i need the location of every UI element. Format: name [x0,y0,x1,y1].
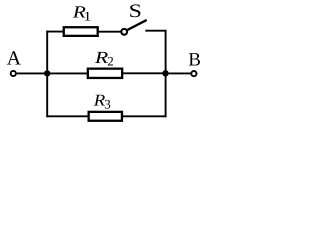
svg-text:3: 3 [104,96,111,111]
svg-text:1: 1 [83,9,91,24]
svg-text:A: A [7,48,22,70]
svg-text:2: 2 [107,53,114,68]
svg-text:B: B [188,50,201,71]
svg-text:S: S [129,1,142,22]
